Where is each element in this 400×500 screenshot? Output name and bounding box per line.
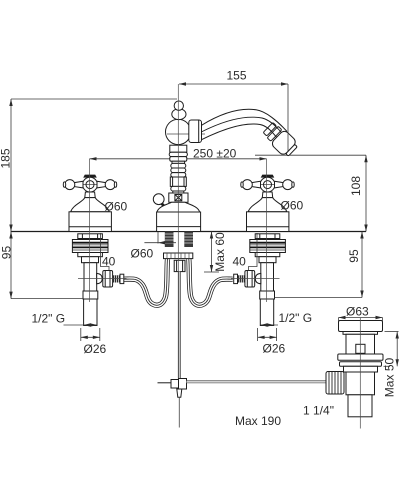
mounting plate bottom (78, 253, 103, 257)
drain ring 1 (338, 354, 383, 360)
centre nut (174, 260, 185, 271)
svg-text:1/2" G: 1/2" G (279, 311, 313, 325)
dimension 185 (0, 99, 177, 232)
spout axis line (167, 133, 205, 135)
dimension 95 left (0, 232, 84, 299)
column cylinder (170, 177, 186, 186)
pop-up rod (178, 272, 181, 379)
dimension 1/2 G right (260, 311, 312, 327)
right handle group (241, 175, 294, 232)
valve tube upper (261, 263, 274, 291)
dimension 95 right (275, 232, 364, 298)
lower collar (260, 291, 275, 299)
threaded nipple (238, 275, 245, 282)
svg-text:Max 60: Max 60 (213, 232, 227, 272)
dimension 155 (179, 69, 288, 153)
wire: right hose (189, 259, 233, 305)
svg-text:108: 108 (349, 176, 363, 196)
hex nut (245, 271, 255, 288)
drain tailpipe (346, 372, 375, 395)
left under-deck valve (72, 234, 126, 326)
fitting axis (78, 277, 127, 279)
column lower ring (171, 186, 186, 191)
dimension Max 50 (383, 332, 399, 398)
column neck (172, 161, 185, 163)
knurled pivot nut (326, 372, 344, 395)
bell (248, 198, 287, 212)
pop-up lever stem (162, 204, 169, 210)
horizontal link rod (187, 380, 328, 383)
column ring section 1 (170, 145, 187, 152)
svg-text:185: 185 (0, 148, 13, 168)
dimension Ø26 left (81, 328, 107, 356)
dimension 1/2 G left (32, 311, 98, 326)
svg-text:1/2" G: 1/2" G (32, 311, 66, 325)
drain centerline (359, 318, 361, 429)
mounting plate bottom (255, 253, 280, 257)
spout connector collar (189, 120, 202, 143)
svg-text:40: 40 (233, 254, 247, 268)
drain body (346, 334, 375, 354)
valve tube upper (84, 263, 97, 291)
extension line 108 top (255, 154, 366, 156)
left arm (75, 181, 84, 188)
svg-text:95: 95 (347, 249, 361, 263)
clamp tip (177, 389, 182, 397)
hex nut (103, 271, 113, 288)
dimension Ø26 right (258, 328, 286, 356)
svg-text:Ø60: Ø60 (281, 199, 304, 213)
handle cap (261, 175, 275, 178)
centre escutcheon base (157, 212, 201, 232)
mounting plate top (78, 234, 103, 239)
finial mid ball (172, 109, 186, 120)
valve block (169, 193, 188, 202)
left arm (252, 181, 261, 188)
flange stack (250, 240, 286, 253)
hub (83, 177, 98, 192)
locknut block (82, 257, 99, 263)
svg-text:Ø63: Ø63 (346, 305, 369, 319)
dimension Max 60 (204, 232, 227, 273)
spout tube (202, 109, 288, 139)
aerator body (270, 129, 299, 158)
drain flange (339, 321, 383, 332)
svg-text:95: 95 (0, 246, 14, 260)
right arm (275, 181, 284, 188)
handle axis (241, 184, 293, 186)
right under-deck valve (231, 234, 285, 326)
svg-text:1 1/4": 1 1/4" (303, 404, 334, 418)
wire: left hose (124, 259, 168, 305)
svg-text:250 ±20: 250 ±20 (193, 146, 237, 160)
locknut block (259, 257, 276, 263)
column small neck (173, 191, 184, 193)
left valve centerline (89, 159, 91, 302)
rod clamp (158, 382, 172, 384)
handle cap (83, 175, 97, 178)
centre clamp bar (164, 253, 193, 259)
drain body lower (344, 366, 378, 372)
fitting axis (231, 277, 280, 279)
aerator collar rings (262, 122, 281, 141)
svg-text:Ø60: Ø60 (105, 200, 128, 214)
svg-text:40: 40 (102, 254, 116, 268)
lower collar (83, 291, 98, 299)
hose collar (234, 274, 238, 283)
column bulge ring (169, 152, 187, 156)
side boss (255, 273, 261, 283)
svg-text:Max 50: Max 50 (383, 358, 397, 398)
bell (71, 198, 110, 212)
svg-text:Max 190: Max 190 (235, 414, 281, 428)
hose collar (120, 274, 124, 283)
label 40 left + leader (101, 233, 116, 271)
drain ring 2 (340, 362, 382, 367)
label Ø60 centre + leader (131, 232, 177, 261)
shank tube (260, 299, 273, 326)
side boss (97, 273, 103, 283)
dimension 250 ±20 line (90, 157, 267, 160)
left handle group (63, 175, 116, 232)
deck line (11, 231, 367, 233)
svg-text:Ø60: Ø60 (131, 247, 154, 261)
hub (260, 177, 275, 192)
centre column centerline (177, 84, 179, 271)
threaded nipple (113, 275, 120, 282)
svg-text:155: 155 (226, 69, 246, 83)
svg-text:Ø26: Ø26 (84, 342, 107, 356)
mounting plate top (255, 234, 280, 239)
pop-up lever ball (153, 194, 164, 205)
right arm (97, 181, 106, 188)
spout body sphere (166, 119, 191, 144)
column ring 2 (170, 157, 187, 162)
shank tube (84, 299, 97, 326)
svg-text:Ø26: Ø26 (263, 342, 286, 356)
finial top ball (174, 101, 183, 110)
handle axis (64, 184, 116, 186)
label 40 right + leader (233, 233, 258, 271)
centre threaded studs (165, 232, 193, 248)
stem (262, 192, 272, 198)
dimension Ø63 (339, 305, 383, 322)
stem (85, 192, 95, 198)
rod tail (178, 397, 180, 427)
column donut rings (171, 163, 186, 168)
right valve centerline (266, 159, 268, 302)
flange stack (72, 240, 108, 253)
centre escutcheon dome (157, 202, 200, 212)
dimension 108 (349, 155, 368, 231)
